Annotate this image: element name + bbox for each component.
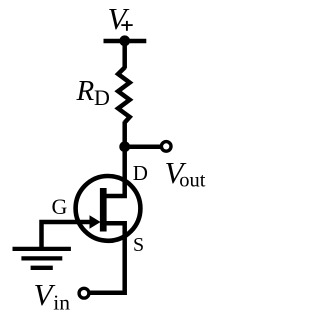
svg-text:in: in <box>53 291 70 315</box>
svg-text:R: R <box>76 75 95 107</box>
svg-text:V: V <box>34 277 56 312</box>
svg-text:V: V <box>108 1 130 36</box>
svg-text:S: S <box>133 234 144 256</box>
svg-text:out: out <box>179 170 206 192</box>
svg-text:G: G <box>52 194 68 219</box>
svg-text:D: D <box>133 161 148 185</box>
svg-text:D: D <box>94 85 110 110</box>
